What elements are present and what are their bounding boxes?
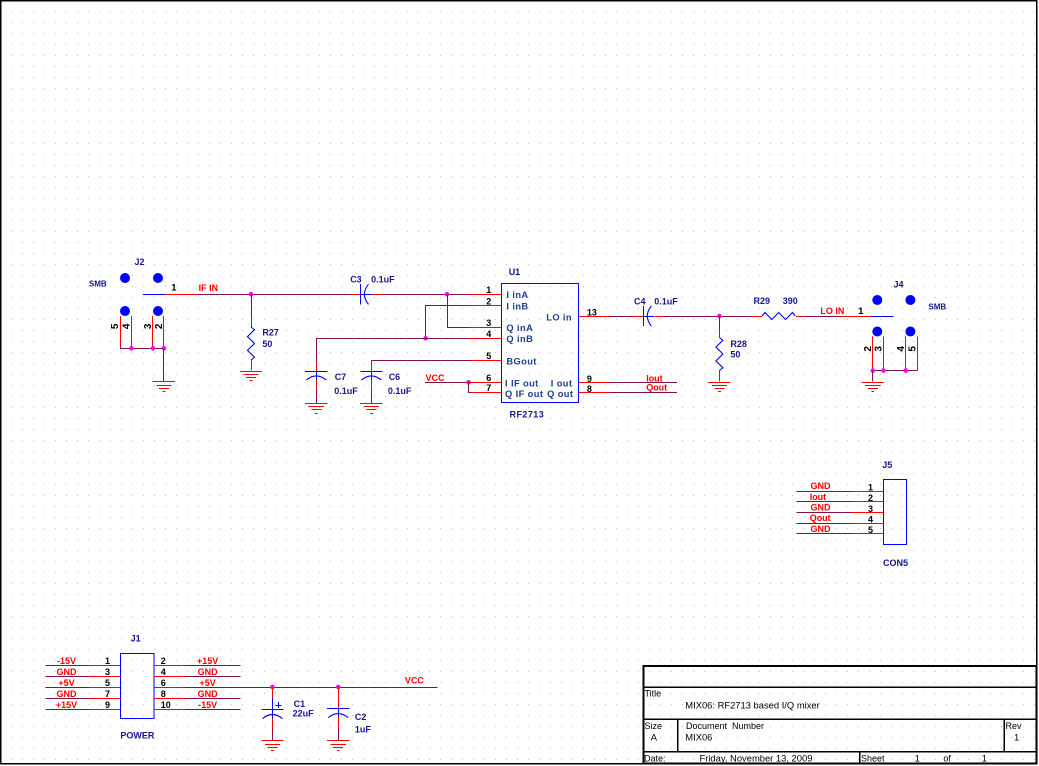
svg-text:0.1uF: 0.1uF (371, 274, 395, 284)
wire C2 to ground (338, 730, 340, 741)
wire C6 to ground (371, 390, 373, 403)
svg-text:SMB: SMB (89, 279, 107, 288)
title block frame (644, 666, 1037, 764)
svg-text:VCC: VCC (405, 676, 425, 686)
svg-text:C4: C4 (634, 297, 646, 307)
resistor R28 (716, 330, 723, 381)
svg-text:13: 13 (587, 308, 597, 318)
svg-text:I inA: I inA (506, 290, 528, 300)
svg-text:I inB: I inB (506, 302, 528, 312)
svg-text:5: 5 (907, 346, 918, 352)
wire I out (610, 382, 677, 384)
wire pin4 / C7 branch (317, 339, 469, 364)
svg-text:GND: GND (811, 481, 832, 491)
op-amp/IC U1 RF2713 body (502, 284, 579, 403)
svg-text:J1: J1 (131, 634, 141, 644)
svg-text:of: of (943, 754, 951, 764)
wire Q out (610, 392, 677, 394)
U1 pin 8 stub (579, 392, 610, 394)
svg-text:+15V: +15V (197, 656, 218, 666)
wire VCC to U1 pin6 (425, 382, 469, 384)
svg-text:CON5: CON5 (883, 558, 908, 568)
ground (C7) (305, 404, 327, 414)
svg-text:Q inB: Q inB (506, 334, 533, 344)
svg-text:RF2713: RF2713 (510, 410, 545, 420)
junction (R28 tap) (717, 314, 722, 319)
wire R27 drop (251, 294, 253, 319)
junction (VCC pins 6/7) (466, 380, 471, 385)
svg-text:R27: R27 (262, 328, 279, 338)
svg-text:7: 7 (486, 383, 491, 393)
svg-text:BGout: BGout (506, 356, 536, 366)
svg-text:+5V: +5V (199, 678, 215, 688)
wire Iout (J5 pin 2) (796, 501, 851, 503)
wire J4 ground bus (873, 370, 918, 372)
svg-text:1: 1 (486, 285, 491, 295)
wire J2 to ground (163, 348, 165, 381)
connector J2 (SMB) (120, 273, 197, 348)
connector J5 body (884, 480, 907, 545)
svg-text:-15V: -15V (57, 656, 76, 666)
svg-text:5: 5 (486, 351, 491, 361)
ground (R27) (240, 372, 262, 381)
svg-text:3: 3 (486, 318, 491, 328)
svg-text:Qout: Qout (810, 513, 831, 523)
svg-text:50: 50 (262, 339, 272, 349)
J1 pin 5 stub (88, 687, 120, 689)
wire GND (J1 pin 3) (45, 676, 88, 678)
svg-text:50: 50 (730, 350, 740, 360)
wire J4 to ground (872, 371, 874, 382)
svg-text:3: 3 (143, 323, 154, 329)
wire R29 to J4 (806, 316, 839, 318)
svg-text:A: A (651, 732, 658, 743)
svg-text:22uF: 22uF (293, 708, 315, 718)
J5 pin 1 stub (851, 491, 884, 493)
svg-text:5: 5 (868, 525, 873, 535)
svg-text:1: 1 (1014, 732, 1019, 743)
svg-text:-15V: -15V (198, 700, 217, 710)
U1 pin 4 stub (468, 338, 501, 340)
svg-text:6: 6 (486, 373, 491, 383)
svg-text:1: 1 (982, 753, 987, 764)
J5 pin 4 stub (851, 523, 884, 525)
wire GND (J1 pin 4) (186, 676, 241, 678)
wire J2 ground bus (120, 348, 164, 350)
capacitor C4 (633, 306, 665, 326)
junction (pin2/pin4 net) (423, 336, 428, 341)
ground (J2) (153, 382, 175, 392)
wire GND (J5 pin 3) (796, 512, 851, 514)
svg-text:U1: U1 (509, 267, 521, 277)
wire C4 to R29 (665, 316, 753, 318)
capacitor C2 (327, 687, 349, 730)
svg-text:Qout: Qout (646, 383, 667, 393)
svg-text:I out: I out (551, 378, 573, 388)
svg-text:POWER: POWER (120, 730, 155, 740)
resistor R29 (753, 313, 806, 320)
svg-text:I IF out: I IF out (505, 378, 539, 388)
svg-text:1: 1 (868, 482, 873, 492)
svg-text:2: 2 (161, 656, 166, 666)
junction (C1 tap) (270, 685, 275, 690)
svg-text:4: 4 (868, 515, 873, 525)
wire Qout (J5 pin 4) (796, 523, 851, 525)
svg-text:R29: R29 (754, 296, 771, 306)
junction (162, 346, 167, 351)
svg-text:Rev: Rev (1006, 721, 1023, 731)
junction (904, 368, 909, 373)
svg-text:8: 8 (587, 384, 592, 394)
wire C3 to U1 pin1 (382, 294, 468, 296)
svg-text:4: 4 (121, 323, 132, 329)
svg-text:Iout: Iout (810, 492, 827, 502)
svg-text:Document Number: Document Number (686, 721, 764, 731)
ground (C1) (261, 741, 283, 751)
junction (129, 346, 134, 351)
J5 pin 5 stub (851, 533, 884, 535)
junction (R27 tap) (249, 292, 254, 297)
connector J4 (SMB) (838, 295, 917, 371)
wire +15V (J1 pin 9) (45, 709, 88, 711)
svg-text:IF IN: IF IN (199, 283, 219, 293)
wire -15V (J1 pin 10) (186, 709, 241, 711)
svg-text:0.1uF: 0.1uF (654, 297, 678, 307)
J1 pin 1 stub (88, 665, 120, 667)
svg-text:Sheet: Sheet (861, 754, 885, 764)
svg-text:J4: J4 (894, 279, 904, 289)
ground (C2) (327, 741, 349, 751)
wire +15V (J1 pin 2) (186, 665, 241, 667)
svg-text:R28: R28 (730, 339, 747, 349)
wire U1 pin2 branch (426, 306, 469, 339)
capacitor C1 (polarized) (261, 687, 283, 730)
capacitor C3 (350, 284, 383, 304)
J5 pin 3 stub (851, 512, 884, 514)
svg-text:8: 8 (161, 689, 166, 699)
wire R28 drop (719, 316, 721, 330)
U1 pin 5 stub (470, 360, 501, 362)
svg-text:Size: Size (645, 721, 663, 731)
ground (J4) (862, 383, 884, 392)
svg-text:5: 5 (110, 323, 121, 329)
J1 pin 7 stub (88, 698, 120, 700)
wire tap down to Q inA (448, 295, 469, 328)
wire U1 pin5 to C6 (371, 360, 470, 362)
svg-text:J5: J5 (882, 460, 892, 470)
svg-text:10: 10 (161, 700, 171, 710)
svg-text:0.1uF: 0.1uF (388, 386, 412, 396)
svg-text:4: 4 (161, 667, 166, 677)
svg-text:3: 3 (873, 346, 884, 352)
svg-text:2: 2 (154, 323, 165, 329)
svg-text:+15V: +15V (56, 700, 77, 710)
svg-text:1: 1 (105, 656, 110, 666)
svg-text:Q IF out: Q IF out (505, 389, 543, 399)
svg-text:7: 7 (105, 689, 110, 699)
svg-text:390: 390 (783, 296, 798, 306)
U1 pin 9 stub (579, 382, 610, 384)
svg-text:LO in: LO in (546, 313, 572, 323)
svg-text:GND: GND (57, 667, 78, 677)
svg-text:GND: GND (811, 503, 832, 513)
svg-text:2: 2 (868, 493, 873, 503)
svg-text:C6: C6 (389, 372, 401, 382)
svg-text:6: 6 (161, 678, 166, 688)
wire VCC to U1 pin7 (469, 383, 471, 393)
svg-text:1: 1 (915, 753, 920, 764)
svg-text:J2: J2 (135, 257, 145, 267)
svg-text:4: 4 (486, 329, 491, 339)
svg-text:3: 3 (868, 504, 873, 514)
resistor R27 (248, 320, 255, 371)
svg-text:9: 9 (587, 374, 592, 384)
svg-text:1uF: 1uF (355, 724, 372, 734)
svg-text:Q inA: Q inA (506, 323, 533, 333)
J1 pin 10 stub (154, 709, 186, 711)
svg-text:MIX06: MIX06 (685, 732, 712, 743)
wire VCC rail (J1 pin 6) (186, 687, 438, 689)
svg-text:0.1uF: 0.1uF (334, 386, 358, 396)
wire -15V (J1 pin 1) (45, 665, 88, 667)
wire GND (J5 pin 5) (796, 533, 851, 535)
U1 pin 2 stub (468, 305, 501, 307)
connector J1 body (121, 654, 155, 719)
wire C1 to ground (272, 730, 274, 741)
svg-text:VCC: VCC (426, 373, 446, 383)
U1 pin 13 stub (579, 316, 610, 318)
svg-text:C7: C7 (335, 372, 347, 382)
junction (881, 368, 886, 373)
svg-text:GND: GND (198, 689, 219, 699)
svg-text:1: 1 (858, 306, 864, 317)
svg-text:C2: C2 (355, 712, 367, 722)
ground (C6) (360, 404, 382, 414)
svg-text:Title: Title (645, 689, 662, 699)
junction (151, 346, 156, 351)
capacitor C6 (360, 360, 382, 389)
wire IF IN: J2 pin1 to C3 (197, 294, 350, 296)
svg-text:Friday, November 13, 2009: Friday, November 13, 2009 (700, 753, 813, 764)
svg-text:GND: GND (57, 689, 78, 699)
svg-text:5: 5 (105, 678, 110, 688)
J1 pin 8 stub (154, 698, 186, 700)
J1 pin 4 stub (154, 676, 186, 678)
svg-text:SMB: SMB (928, 303, 946, 312)
junction (Q inA tap) (445, 292, 450, 297)
svg-text:4: 4 (896, 346, 907, 352)
J1 pin 3 stub (88, 676, 120, 678)
U1 pin 1 stub (468, 294, 501, 296)
U1 pin 7 stub (470, 392, 501, 394)
wire GND (J5 pin 1) (796, 491, 851, 493)
wire GND (J1 pin 7) (45, 698, 88, 700)
capacitor C7 (305, 364, 327, 390)
wire C7 to ground (316, 390, 318, 403)
junction (871, 368, 876, 373)
svg-text:GND: GND (811, 524, 832, 534)
svg-text:GND: GND (198, 667, 219, 677)
svg-text:Date:: Date: (644, 754, 666, 764)
svg-text:LO IN: LO IN (820, 306, 844, 316)
svg-text:MIX06: RF2713 based I/Q mixer: MIX06: RF2713 based I/Q mixer (685, 700, 819, 711)
J5 pin 2 stub (851, 501, 884, 503)
svg-text:9: 9 (105, 700, 110, 710)
svg-text:2: 2 (486, 297, 491, 307)
svg-text:Q out: Q out (547, 389, 573, 399)
ground (R28) (708, 383, 730, 392)
J1 pin 9 stub (88, 709, 120, 711)
svg-text:2: 2 (863, 346, 874, 352)
wire GND (J1 pin 8) (186, 698, 241, 700)
J1 pin 2 stub (154, 665, 186, 667)
wire +5V (J1 pin 5) (45, 687, 88, 689)
J1 pin 6 stub (154, 687, 186, 689)
svg-text:3: 3 (105, 667, 110, 677)
U1 pin 3 stub (468, 327, 501, 329)
svg-text:1: 1 (171, 283, 177, 294)
U1 pin 6 stub (469, 382, 502, 384)
junction (C2 tap) (336, 685, 341, 690)
wire U1 pin13 to C4 (610, 316, 633, 318)
svg-text:C3: C3 (350, 274, 362, 284)
svg-text:+5V: +5V (58, 678, 74, 688)
